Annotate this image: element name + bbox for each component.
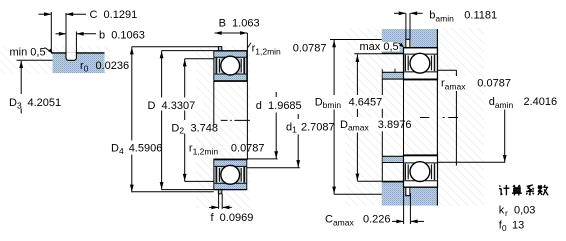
left shield bottom xyxy=(215,167,220,183)
right shield bottom xyxy=(240,167,245,183)
shaft shoulder strip bottom xyxy=(383,157,404,162)
Dbmin top extension line xyxy=(330,39,405,41)
svg-text:d12.7087: d12.7087 xyxy=(286,122,335,135)
inner ring shoulder line right top xyxy=(404,71,437,73)
bearing top edge xyxy=(214,50,247,52)
bore side walls xyxy=(213,82,215,126)
housing shoulder band bottom xyxy=(382,182,404,188)
right bearing bottom edge thick xyxy=(404,186,438,188)
dimension D3 line xyxy=(20,61,22,94)
svg-text:D 4.3307: D 4.3307 xyxy=(148,100,196,112)
dimension D line xyxy=(161,51,163,190)
bearing bottom edge xyxy=(214,189,247,191)
D4 top extension line xyxy=(132,46,219,48)
outer ring inner surface line top xyxy=(214,56,246,58)
outer ring inner surface line bottom xyxy=(214,182,246,184)
Damax bottom extension line xyxy=(357,180,404,182)
d1 extension line xyxy=(247,167,300,169)
Dbmin bottom extension line xyxy=(334,193,405,195)
svg-text:k r0,03: k r0,03 xyxy=(499,204,536,218)
svg-text:bamin0.1181: bamin0.1181 xyxy=(429,10,497,24)
right shield xyxy=(240,58,245,74)
hatch background right view xyxy=(345,28,484,206)
dimension B line with outward arrows xyxy=(215,32,248,34)
r_amax dimension line xyxy=(455,70,457,76)
bore line right bottom xyxy=(404,155,438,156)
right bearing top outline xyxy=(404,48,438,80)
dimension Dbmin line xyxy=(333,40,335,96)
d_amin dimension line xyxy=(504,110,506,163)
label min 0,5 with leader xyxy=(8,47,45,57)
svg-text:Camax0.226: Camax0.226 xyxy=(325,213,391,227)
snap ring slot bottom xyxy=(405,187,411,193)
D4 bottom extension line xyxy=(132,191,214,193)
B extension line right / shaft right line xyxy=(246,33,248,160)
label max 0,5 with leader xyxy=(359,42,400,51)
snap ring groove tab top xyxy=(218,47,221,51)
dimension f lines xyxy=(218,194,220,209)
housing section top xyxy=(382,29,438,48)
bore walls right view xyxy=(403,80,405,155)
Damax top extension line xyxy=(354,53,403,55)
dimension b arrows xyxy=(56,33,66,35)
svg-text:f 0.0969: f 0.0969 xyxy=(211,212,254,224)
housing shoulder band top xyxy=(382,48,404,54)
f arrows xyxy=(209,206,218,208)
snap ring groove slot xyxy=(66,52,76,60)
svg-text:f013: f013 xyxy=(499,220,524,234)
inner ring shoulder line right bottom xyxy=(404,162,437,164)
label D 4.3307 xyxy=(140,98,202,111)
inner ring shoulder line top xyxy=(214,73,246,75)
right bearing top edge thick xyxy=(404,47,438,49)
svg-text:C 0.1291: C 0.1291 xyxy=(90,9,138,21)
snap ring bottom xyxy=(406,185,410,195)
r_amax top extension line xyxy=(438,69,457,71)
hatch background middle view xyxy=(196,46,250,208)
outer ring inner surface line right top xyxy=(404,53,437,55)
right axis line xyxy=(420,117,460,119)
bore line bottom bearing xyxy=(214,159,247,160)
shields right view top xyxy=(405,55,406,71)
label Dbmin 4.6457 xyxy=(314,95,383,109)
C extension line left xyxy=(50,12,52,53)
left shield xyxy=(215,58,220,74)
svg-text:B 1.063: B 1.063 xyxy=(219,18,260,30)
right bearing bottom outline xyxy=(404,155,438,187)
fillet tick xyxy=(394,69,396,73)
bore line right top xyxy=(404,79,438,80)
svg-text:damin2.4016: damin2.4016 xyxy=(489,96,557,110)
dimension D2 line xyxy=(184,59,186,120)
shields right view bottom xyxy=(405,164,406,180)
inner ring shoulder line bottom xyxy=(214,165,246,167)
dimension D4 line xyxy=(131,47,133,141)
svg-text:D23.748: D23.748 xyxy=(171,122,218,135)
svg-text:D34.2051: D34.2051 xyxy=(9,97,61,111)
middle axis line xyxy=(221,119,252,121)
ball top xyxy=(221,56,240,75)
hatch background left detail xyxy=(0,47,112,74)
D2 bottom extension line xyxy=(185,180,214,182)
D bottom extension line xyxy=(162,189,214,191)
leader tick top right corner xyxy=(248,43,251,48)
D3 extension line at groove bottom xyxy=(17,59,53,61)
ball bottom xyxy=(221,165,240,184)
bore line top bearing xyxy=(214,80,247,81)
snap ring groove tab bottom xyxy=(218,189,221,193)
shaft shoulder strip top xyxy=(383,73,404,79)
outer ring inner surface line right bottom xyxy=(404,180,437,182)
b_amin arrows xyxy=(394,12,405,14)
ball right view bottom xyxy=(410,162,430,182)
top bearing outer+inner ring section xyxy=(214,51,247,82)
b_amin extension lines xyxy=(405,13,407,39)
b extension line right (groove wall) xyxy=(75,32,77,54)
outer ring groove detail block xyxy=(53,53,105,73)
D2 top extension line xyxy=(185,58,214,60)
svg-text:r1,2min0.0787: r1,2min0.0787 xyxy=(252,43,327,57)
dimension C arrows xyxy=(39,13,51,15)
D top extension line xyxy=(162,50,214,52)
d extension line xyxy=(247,158,277,160)
dimension Damax line xyxy=(356,54,358,95)
svg-text:b 0.1063: b 0.1063 xyxy=(99,30,145,42)
svg-text:D44.5906: D44.5906 xyxy=(111,143,162,156)
d_amin extension line xyxy=(437,161,505,163)
bottom bearing outer+inner ring section xyxy=(214,159,247,190)
shaft shoulder face line xyxy=(381,69,383,95)
ball right view top xyxy=(410,53,430,73)
dimension d line xyxy=(275,92,277,97)
svg-text:d 1.9685: d 1.9685 xyxy=(256,100,302,112)
svg-text:min 0,5: min 0,5 xyxy=(10,47,46,59)
dimension d1 line xyxy=(297,114,299,119)
calculation factors heading (hand-drawn CJK strokes) xyxy=(499,185,502,186)
C extension line right (groove wall) xyxy=(65,13,67,53)
label r_amax 0.0787 xyxy=(440,77,474,91)
C_amax extension lines xyxy=(403,187,405,224)
label Damax 3.8976 xyxy=(339,118,412,132)
snap ring top xyxy=(406,39,410,50)
housing section bottom xyxy=(382,187,438,205)
svg-text:max 0,5: max 0,5 xyxy=(360,41,399,53)
C_amax arrows xyxy=(392,220,403,222)
snap ring slot top xyxy=(405,39,411,48)
